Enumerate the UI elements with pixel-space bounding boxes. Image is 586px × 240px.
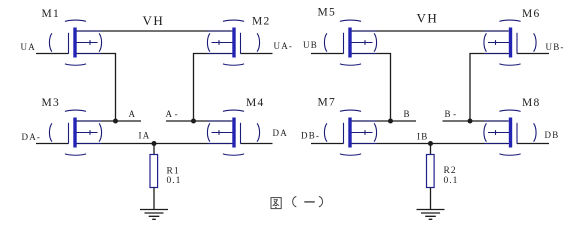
wire gate UA	[36, 53, 69, 55]
wire IA source rail	[77, 143, 232, 145]
wire gate UB-	[517, 53, 549, 55]
svg-text:R2: R2	[444, 166, 457, 176]
svg-text:DA-: DA-	[22, 132, 42, 142]
node A junction	[113, 119, 118, 124]
transistor M2	[207, 20, 259, 65]
node B- junction	[468, 119, 473, 124]
svg-text:M1: M1	[42, 8, 61, 20]
wire node B stub	[352, 120, 417, 122]
svg-text:DB: DB	[545, 130, 560, 140]
svg-text:VH: VH	[417, 11, 439, 26]
svg-text:A-: A-	[166, 109, 181, 119]
wire gate UA-	[241, 53, 273, 55]
resistor R1	[150, 155, 158, 188]
svg-text:UB: UB	[303, 40, 318, 50]
transistor M4	[207, 110, 259, 155]
svg-text:UB-: UB-	[546, 42, 565, 52]
transistor M5	[324, 20, 376, 65]
wire R2 top	[430, 144, 432, 155]
wire node A stub	[77, 120, 142, 122]
svg-text:M7: M7	[318, 97, 337, 109]
svg-text:B: B	[404, 109, 411, 119]
wire M2 source to node A-	[194, 54, 232, 122]
transistor M3	[49, 110, 101, 155]
caption figure one	[271, 196, 323, 208]
wire node A- stub	[166, 120, 232, 122]
svg-text:IA: IA	[139, 130, 151, 140]
transistor M8	[484, 110, 536, 155]
svg-text:M3: M3	[42, 97, 61, 109]
wire R1 top	[153, 144, 155, 155]
wire IB source rail	[352, 143, 509, 145]
wire gate DB-	[311, 143, 344, 145]
wire R1 bottom	[153, 188, 155, 210]
svg-text:M4: M4	[246, 97, 265, 109]
svg-text:IB: IB	[417, 132, 428, 142]
svg-text:M6: M6	[522, 8, 541, 20]
svg-text:0.1: 0.1	[167, 176, 182, 186]
wire node B- stub	[443, 120, 509, 122]
ground	[140, 210, 168, 220]
svg-text:UA: UA	[21, 42, 36, 52]
wire gate DA	[241, 143, 273, 145]
wire VH rail	[77, 30, 232, 32]
ground	[417, 210, 445, 220]
resistor R2	[427, 155, 435, 188]
wire R2 bottom	[430, 188, 432, 210]
wire VH rail	[352, 30, 509, 32]
transistor M7	[324, 110, 376, 155]
wire gate DA-	[36, 143, 69, 145]
node B junction	[388, 119, 393, 124]
svg-text:DA: DA	[273, 128, 288, 138]
node IA junction	[152, 141, 157, 146]
node A- junction	[191, 119, 196, 124]
svg-text:0.1: 0.1	[444, 176, 459, 186]
node IB junction	[428, 141, 433, 146]
svg-text:M2: M2	[252, 15, 271, 27]
svg-text:UA-: UA-	[274, 41, 294, 51]
svg-text:DB-: DB-	[301, 131, 320, 141]
svg-text:A: A	[129, 109, 137, 119]
svg-text:R1: R1	[167, 166, 180, 176]
transistor M6	[484, 20, 536, 65]
svg-text:B-: B-	[445, 109, 459, 119]
transistor M1	[49, 20, 101, 65]
wire M6 source to node B-	[470, 54, 508, 122]
wire M1 source to node A	[77, 54, 116, 122]
svg-text:VH: VH	[143, 13, 165, 28]
wire M5 source to node B	[352, 54, 391, 122]
svg-text:M8: M8	[522, 97, 541, 109]
wire gate UB	[311, 53, 344, 55]
svg-text:M5: M5	[318, 7, 337, 19]
wire gate DB	[517, 143, 549, 145]
